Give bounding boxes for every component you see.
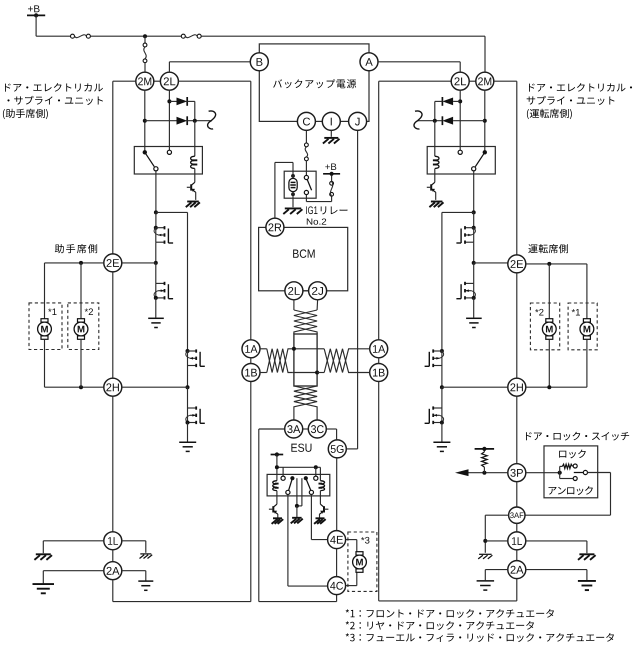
ESU relay R lever xyxy=(306,478,311,490)
terminal 2L left xyxy=(160,72,178,90)
terminal 2E left xyxy=(104,254,122,272)
terminal 2M right xyxy=(476,72,494,90)
relay K2 pivot contact xyxy=(472,167,476,171)
motor M3 fuel lid actuator xyxy=(356,552,363,555)
ground chassis I xyxy=(324,137,338,139)
wire right bus 2H-3P xyxy=(516,396,518,464)
wire motor2 feed xyxy=(80,263,82,319)
terminal 4C xyxy=(328,577,346,595)
ESU relay R coil xyxy=(320,481,324,491)
wire to MOSFET Q9 xyxy=(473,212,475,227)
terminal B xyxy=(250,53,268,71)
wire connector to relay switch xyxy=(305,161,307,176)
wire 3C to 5G xyxy=(326,428,336,430)
relay IG1 lever xyxy=(307,180,311,191)
ground earth Q5 xyxy=(179,441,196,443)
wire ESU rail xyxy=(277,466,321,468)
relay K1 lever xyxy=(145,152,155,166)
wire 2M-2L link xyxy=(154,80,161,82)
wire left 1A-1B bus mid xyxy=(250,358,252,364)
ground chassis Q1 xyxy=(187,201,199,203)
wire ESU supply xyxy=(276,455,278,481)
label BCM xyxy=(293,249,314,257)
actuator box *2 left xyxy=(68,303,99,350)
wire switch pole to 3AF xyxy=(588,472,611,474)
wire Q12 to ground xyxy=(441,423,443,442)
terminal A xyxy=(360,53,378,71)
relay K1 box left unit xyxy=(134,147,202,175)
wire right 1A-1B bus mid xyxy=(378,358,380,364)
wire 2A right ground xyxy=(122,570,146,572)
wire 2E to node xyxy=(122,262,156,264)
junction mid ground xyxy=(295,504,299,508)
actuator box *2 right xyxy=(530,303,559,350)
wire right 1B bus down xyxy=(378,382,380,601)
junction Q9 drain xyxy=(472,226,476,230)
terminal 1L right xyxy=(508,532,526,550)
footnote 1 xyxy=(346,609,349,612)
wire net B horizontal xyxy=(293,372,318,374)
MOSFET Q11 chain2 right xyxy=(440,349,444,353)
junction Q2 drain xyxy=(154,226,158,230)
wire coil bottom to ground xyxy=(292,192,294,208)
motor M5 front lock actuator xyxy=(583,319,590,322)
wire rail to right unit xyxy=(201,35,485,37)
junction ESU rail left xyxy=(275,465,279,469)
motor M2 lock actuator xyxy=(78,319,85,322)
ESU relay L common xyxy=(290,476,294,480)
wire motor returns right xyxy=(548,339,550,387)
wire left bus 1L-2A xyxy=(112,550,114,562)
junction pull-up resistor xyxy=(482,471,486,475)
twisted pair BCM to junction box xyxy=(293,300,295,310)
unit label door electrical supply unit passenger xyxy=(5,84,11,92)
resistor R1 pull-up xyxy=(482,452,488,467)
wire right 1A bus xyxy=(379,80,452,82)
wire 2L-2J link BCM xyxy=(303,290,309,292)
wire 3AF to ground xyxy=(485,514,509,516)
wire diode D1 to coil feed xyxy=(194,101,196,120)
wire 2L to terminal B xyxy=(168,62,170,72)
terminal 2M left xyxy=(136,72,154,90)
terminal 2H left xyxy=(104,378,122,396)
label passenger side xyxy=(55,244,64,253)
wire relay K2 pivot down xyxy=(473,171,475,212)
transistor Q7 ESU right xyxy=(319,496,321,504)
wire right bus 2E-2H xyxy=(516,273,518,378)
junction Q12 source xyxy=(440,421,444,425)
wire relay pivot down xyxy=(155,171,157,212)
ESU relay L coil xyxy=(273,481,277,491)
footnote 3 xyxy=(346,633,349,636)
wire rail xyxy=(90,35,181,37)
label ESU xyxy=(291,444,311,452)
wire Q11 to 2H node right xyxy=(441,366,443,388)
wire rail drop R contact xyxy=(315,467,317,476)
wire coil top to 2R xyxy=(292,162,294,178)
wire left 1A bus xyxy=(178,80,250,82)
wire 2H right to chain2 xyxy=(442,386,508,388)
label IG1 relay xyxy=(306,206,317,214)
junction motor 2 branch xyxy=(79,261,83,265)
ground chassis 1L right xyxy=(140,553,151,555)
arrow continuation xyxy=(455,469,469,476)
wire 2L right down xyxy=(459,90,461,152)
connector C feed xyxy=(305,143,309,147)
MOSFET Q3 low side xyxy=(155,283,157,298)
wire motor1 return xyxy=(44,339,46,387)
wire 2A right left ground xyxy=(485,569,508,571)
relay IG1 box xyxy=(284,171,316,198)
wire motor1 feed xyxy=(44,263,46,319)
wire 4E to motor3 xyxy=(346,539,357,541)
MOSFET Q2 high side xyxy=(155,228,157,243)
junction coil bottom xyxy=(291,192,295,196)
junction ESU rail right xyxy=(314,465,318,469)
ground chassis 1L left xyxy=(36,553,51,555)
switch pole lever xyxy=(574,472,583,474)
wire coil bottom xyxy=(194,169,196,174)
label +B IG1 xyxy=(325,163,336,170)
wire right bus 1L-2A xyxy=(516,550,518,561)
junction motor branch right xyxy=(547,262,551,266)
power stub ESU xyxy=(271,454,284,456)
junction Q10 source xyxy=(472,296,476,300)
junction Q5 source xyxy=(186,421,190,425)
ground chassis 1L right xyxy=(579,553,594,555)
terminal 2A left xyxy=(104,562,122,580)
power stub +B IG1 xyxy=(323,173,340,175)
ESU relay R pivot xyxy=(309,490,313,494)
wire 2E right to node xyxy=(474,262,508,264)
wire 2M right to bus xyxy=(494,80,517,82)
ground earth Q10 xyxy=(466,317,482,319)
wire 2H to chain2 xyxy=(122,386,188,388)
wire node to Q3 xyxy=(155,263,157,284)
unlock branch xyxy=(559,473,561,479)
ESU relay L NO contact xyxy=(281,476,285,480)
junction net B xyxy=(315,371,319,375)
wire 4E-4C xyxy=(336,549,338,577)
terminal 3AF xyxy=(509,507,525,523)
relay K1 NC contact xyxy=(167,150,171,154)
wire 2H node to Q5 xyxy=(187,387,189,408)
junction top rail xyxy=(143,34,147,38)
junction 2H node right xyxy=(440,385,444,389)
ground chassis IG1 xyxy=(285,207,301,209)
wire rail drop L contact xyxy=(282,467,284,476)
motor M1 lock actuator xyxy=(41,319,48,322)
twisted pair left xyxy=(260,348,267,350)
motor M4 rear lock actuator xyxy=(546,319,553,322)
wire left bus 2H-1L xyxy=(112,396,114,532)
relay K1 common contact xyxy=(143,150,147,154)
label No.2 xyxy=(307,218,326,224)
junction coil feed right xyxy=(433,119,437,123)
wire 3A-3C link xyxy=(303,428,309,430)
junction coil top xyxy=(291,174,295,178)
relay K1 coil xyxy=(191,156,195,168)
ground chassis Q7 xyxy=(316,517,325,519)
twisted pair to ESU xyxy=(294,386,317,420)
wire coil feed down xyxy=(194,121,196,157)
ESU relay R common xyxy=(304,476,308,480)
terminal I xyxy=(322,112,340,130)
wire Q9 to 2E node right xyxy=(473,242,475,263)
junction coil feed xyxy=(193,119,197,123)
junction 3AF 1L ground xyxy=(483,539,487,543)
relay K2 common contact xyxy=(483,150,487,154)
terminal 1L left xyxy=(104,532,122,550)
switch common junction xyxy=(558,471,562,475)
wire left bus 2E-2H xyxy=(112,272,114,378)
actuator box *1 left xyxy=(29,303,62,350)
wire 1L right ground xyxy=(526,540,587,542)
terminal 3P xyxy=(508,464,526,482)
relay K2 coil xyxy=(435,156,439,168)
unit label door electrical supply unit driver xyxy=(529,84,535,92)
label unlock xyxy=(549,487,557,495)
backup power box xyxy=(259,44,369,122)
wire 4C to motor3 xyxy=(346,585,357,587)
label lock xyxy=(559,451,566,458)
wire 2M right down xyxy=(484,90,486,152)
wire to MOSFET Q2 xyxy=(155,212,157,227)
wire 3P left with arrow xyxy=(468,472,508,474)
label door lock switch xyxy=(526,432,532,440)
wire 5G to J bus xyxy=(346,448,357,450)
wire 1L left ground xyxy=(43,540,104,542)
transistor Q8 right unit xyxy=(434,174,436,182)
wire J bus xyxy=(357,130,359,449)
wire right bus 3P-3AF xyxy=(516,482,518,508)
terminal 2E right xyxy=(508,255,526,273)
unlock contact xyxy=(573,477,577,481)
wire Q4 to 2H node xyxy=(187,366,189,388)
wire node to Q10 xyxy=(473,263,475,284)
wire 3P into switch xyxy=(526,472,560,474)
wire 1L right ground xyxy=(122,540,146,542)
wire C down xyxy=(305,130,307,143)
wire 2L down xyxy=(168,90,170,152)
ESU relay box xyxy=(267,474,330,496)
footnote 2 xyxy=(346,621,349,624)
diode D3 right unit xyxy=(453,100,460,102)
wire 3A loop to 4C xyxy=(259,428,285,430)
ground earth 2A right-left xyxy=(477,580,495,582)
resistor R2 lock side xyxy=(559,466,561,472)
ground chassis Q8 xyxy=(431,201,443,203)
terminal 2R xyxy=(266,218,284,236)
wire to right chain2 xyxy=(442,211,474,213)
terminal 3A xyxy=(285,420,303,438)
relay IG1 switch bottom contact xyxy=(304,190,308,194)
MOSFET Q5 low side chain2 xyxy=(187,408,189,423)
BCM box xyxy=(259,227,348,290)
junction right chains xyxy=(472,210,476,214)
ground chassis Q6 xyxy=(273,517,282,519)
relay K2 box right unit xyxy=(427,147,495,175)
label driver side xyxy=(528,244,537,253)
wire ESU mid commons xyxy=(296,478,298,506)
terminal 2L BCM xyxy=(285,282,303,300)
terminal 2J BCM xyxy=(309,282,327,300)
actuator box *1 right xyxy=(568,303,597,350)
wire Q10 to ground xyxy=(473,298,475,318)
actuator box *3 xyxy=(348,532,377,591)
wire 2H node to Q12 xyxy=(441,387,443,408)
wire R pivot to 4E xyxy=(310,495,312,540)
fuse F2 xyxy=(181,34,185,38)
junction 2M diode tap xyxy=(143,119,147,123)
junction 2L diode tap right xyxy=(458,99,462,103)
terminal 2L right xyxy=(451,72,469,90)
power stub resistor xyxy=(475,448,495,450)
wire break squiggle right xyxy=(414,111,422,128)
wire Q5 to ground xyxy=(187,423,189,442)
wire I to ground xyxy=(330,130,332,136)
junction shield box xyxy=(294,334,317,386)
wire +B down xyxy=(35,15,37,36)
terminal 5G xyxy=(328,440,346,458)
junction 2L diode tap xyxy=(167,99,171,103)
junction left chains xyxy=(154,210,158,214)
wire terminal A to 2L right xyxy=(378,61,460,63)
wire motor2 return xyxy=(80,339,82,387)
terminal 2A right xyxy=(508,561,526,579)
terminal 2H right xyxy=(508,378,526,396)
diode D4 right unit xyxy=(453,120,485,122)
terminal J xyxy=(349,112,367,130)
MOSFET Q12 low side chain2 right xyxy=(441,408,443,423)
terminal 1A left xyxy=(242,340,260,358)
ground earth Q12 xyxy=(433,441,450,443)
ground earth 2A right-right xyxy=(578,580,596,582)
wire 2M down xyxy=(144,90,146,152)
wire 2A right right ground xyxy=(526,569,587,571)
ESU relay R NO contact xyxy=(314,476,318,480)
power source +B bar xyxy=(27,14,45,16)
ESU relay L lever xyxy=(289,478,293,490)
wire right bus 3AF-1L xyxy=(516,523,518,532)
wire 2M to left bus xyxy=(113,80,136,82)
connector +B feed IG1 xyxy=(330,192,334,196)
ground earth Q3 xyxy=(148,317,164,319)
power source +B label xyxy=(28,5,40,12)
ground chassis 3AF 1L xyxy=(479,553,492,555)
wire Q2 to 2E node xyxy=(155,242,157,263)
wire break squiggle left xyxy=(208,111,216,128)
junction 2H node xyxy=(186,385,190,389)
ground earth 2A left xyxy=(33,583,55,585)
wire 5G down to 4E xyxy=(336,458,338,531)
junction Q3 source xyxy=(154,296,158,300)
terminal 1B left xyxy=(242,364,260,382)
wire net A horizontal xyxy=(293,348,318,350)
terminal 3C xyxy=(308,420,326,438)
junction 2E node xyxy=(154,261,158,265)
label backup power supply xyxy=(273,79,282,87)
MOSFET Q4 high side chain2 xyxy=(186,349,190,353)
relay IG1 coil capsule xyxy=(289,178,297,191)
wire coil feed down right xyxy=(434,121,436,157)
junction 2E node right xyxy=(472,261,476,265)
diode D1 left unit xyxy=(169,100,176,102)
terminal 4E xyxy=(328,531,346,549)
wire 2L-2M link right xyxy=(469,80,476,82)
relay IG1 switch top contact xyxy=(304,175,308,179)
ground chassis ESU mid xyxy=(292,517,302,519)
wire 2E right to motors xyxy=(526,263,587,265)
junction motor return right xyxy=(547,385,551,389)
relay K2 NC contact xyxy=(458,150,462,154)
relay K1 pivot contact xyxy=(154,167,158,171)
connector in +B feed xyxy=(144,36,146,43)
switch pole contact xyxy=(583,470,587,474)
fuse F1 xyxy=(71,34,75,38)
terminal 1A right xyxy=(370,340,388,358)
twisted pair right xyxy=(317,348,324,350)
wire D3 to coil feed right xyxy=(434,101,436,120)
relay K2 lever xyxy=(475,152,485,166)
transistor Q6 ESU left xyxy=(276,496,278,504)
wire rail to right coil xyxy=(319,467,321,480)
transistor Q1 left unit xyxy=(194,174,196,182)
terminal 1B right xyxy=(370,364,388,382)
lock contact xyxy=(573,464,577,468)
junction 2M diode tap right xyxy=(483,119,487,123)
wire motor feeds right xyxy=(548,264,550,319)
ground earth 2A right xyxy=(138,580,153,582)
wire mid to ground xyxy=(296,506,298,518)
wire L pivot to 4C xyxy=(287,495,289,587)
junction motor2 return xyxy=(79,385,83,389)
door lock switch box xyxy=(544,446,598,498)
MOSFET Q9 high side xyxy=(473,228,475,243)
wire 2E to motors xyxy=(45,262,104,264)
MOSFET Q10 low side xyxy=(473,283,475,298)
wire 1L right-left xyxy=(485,540,508,542)
wire relay switch to +B xyxy=(305,195,307,202)
junction net A xyxy=(292,347,296,351)
wire Q3 to ground xyxy=(155,298,157,318)
wire 2A left ground xyxy=(43,570,104,572)
ESU relay L pivot xyxy=(286,490,290,494)
wire to chain2 xyxy=(156,211,188,213)
wire left bus bottom xyxy=(112,580,114,602)
terminal C xyxy=(297,112,315,130)
diode D2 left unit xyxy=(145,120,177,122)
